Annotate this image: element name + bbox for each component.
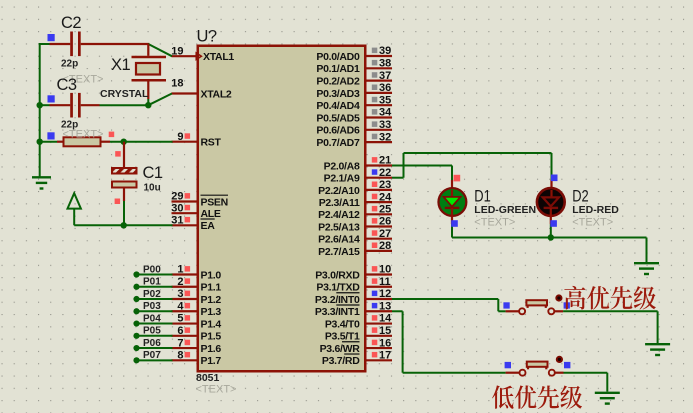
svg-text:2: 2 [177,276,183,288]
svg-text:P2.0/A8: P2.0/A8 [324,160,360,172]
svg-text:3: 3 [177,288,183,300]
svg-text:27: 27 [379,228,391,240]
svg-text:C1: C1 [143,164,163,182]
svg-text:X1: X1 [111,56,131,74]
svg-text:P06: P06 [143,338,161,349]
svg-text:23: 23 [379,179,391,191]
svg-text:11: 11 [379,276,391,288]
svg-text:P3.4/T0: P3.4/T0 [325,318,360,330]
svg-text:P3.5/T1: P3.5/T1 [325,331,360,343]
svg-text:10u: 10u [144,183,161,194]
svg-text:P1.3: P1.3 [201,306,222,318]
svg-text:P0.5/AD5: P0.5/AD5 [316,112,360,124]
svg-text:C3: C3 [57,76,77,94]
svg-text:P0.1/AD1: P0.1/AD1 [316,63,360,75]
svg-text:D2: D2 [572,188,589,206]
svg-text:P0.6/AD6: P0.6/AD6 [316,125,360,137]
svg-text:P3.0/RXD: P3.0/RXD [315,269,360,281]
svg-text:25: 25 [379,204,391,216]
svg-text:P02: P02 [143,289,161,300]
svg-text:P1.6: P1.6 [201,343,222,355]
svg-text:36: 36 [379,82,391,94]
svg-text:P00: P00 [143,264,161,275]
svg-text:LED-RED: LED-RED [572,204,619,216]
svg-text:P3.7/RD: P3.7/RD [322,355,360,367]
svg-text:38: 38 [379,58,391,70]
svg-text:29: 29 [171,191,183,203]
svg-text:P03: P03 [143,301,161,312]
svg-text:P3.1/TXD: P3.1/TXD [316,282,360,294]
svg-text:37: 37 [379,70,391,82]
svg-text:30: 30 [171,202,183,214]
svg-text:XTAL2: XTAL2 [201,88,232,100]
svg-text:P0.3/AD3: P0.3/AD3 [316,88,360,100]
svg-text:CRYSTAL: CRYSTAL [100,88,149,100]
svg-text:PSEN: PSEN [201,196,228,208]
svg-text:P01: P01 [143,277,161,288]
svg-text:39: 39 [379,45,391,57]
svg-text:P2.6/A14: P2.6/A14 [318,234,360,246]
svg-text:P0.7/AD7: P0.7/AD7 [316,137,360,149]
svg-text:P0.0/AD0: P0.0/AD0 [316,51,360,63]
svg-text:P2.7/A15: P2.7/A15 [318,246,360,258]
svg-text:10: 10 [379,264,391,276]
svg-text:14: 14 [379,313,392,325]
svg-text:P1.4: P1.4 [201,318,222,330]
svg-text:P1.2: P1.2 [201,294,222,306]
svg-text:12: 12 [379,288,391,300]
svg-text:P3.6/WR: P3.6/WR [320,343,361,355]
svg-text:ALE: ALE [201,208,221,220]
svg-text:33: 33 [379,119,391,131]
svg-text:17: 17 [379,350,391,362]
svg-text:8: 8 [177,350,183,362]
svg-text:P3.3/INT1: P3.3/INT1 [315,306,360,318]
svg-text:P05: P05 [143,326,161,337]
svg-text:22p: 22p [61,59,78,70]
svg-text:P1.7: P1.7 [201,355,222,367]
svg-text:P1.1: P1.1 [201,282,222,294]
svg-text:13: 13 [379,300,391,312]
svg-text:U?: U? [197,28,217,46]
svg-text:21: 21 [379,155,391,167]
svg-text:8051: 8051 [196,372,220,384]
svg-text:LED-GREEN: LED-GREEN [474,204,536,216]
svg-text:RST: RST [201,137,222,149]
svg-text:7: 7 [177,337,183,349]
svg-text:P2.4/A12: P2.4/A12 [318,209,360,221]
svg-text:P3.2/INT0: P3.2/INT0 [315,294,360,306]
svg-text:31: 31 [171,215,183,227]
svg-text:P2.2/A10: P2.2/A10 [318,185,360,197]
svg-text:9: 9 [177,131,183,143]
svg-text:P1.5: P1.5 [201,331,222,343]
svg-text:P04: P04 [143,313,161,324]
svg-text:5: 5 [177,313,183,325]
svg-text:16: 16 [379,337,391,349]
svg-text:18: 18 [171,78,183,90]
svg-text:P1.0: P1.0 [201,269,222,281]
svg-text:1: 1 [177,264,183,276]
svg-text:19: 19 [171,45,183,57]
svg-text:P2.1/A9: P2.1/A9 [324,173,360,185]
svg-text:22: 22 [379,167,391,179]
svg-text:EA: EA [201,220,216,232]
svg-text:<TEXT>: <TEXT> [572,217,613,229]
svg-text:35: 35 [379,94,391,106]
svg-text:P2.3/A11: P2.3/A11 [319,197,360,209]
svg-text:D1: D1 [474,188,491,206]
svg-text:15: 15 [379,325,391,337]
svg-text:<TEXT>: <TEXT> [196,384,237,396]
svg-text:24: 24 [379,191,392,203]
svg-text:4: 4 [177,300,184,312]
svg-text:<TEXT>: <TEXT> [474,217,515,229]
svg-text:32: 32 [379,131,391,143]
svg-text:<TEXT>: <TEXT> [63,129,104,141]
svg-text:26: 26 [379,216,391,228]
svg-text:6: 6 [177,325,183,337]
svg-text:28: 28 [379,240,391,252]
svg-text:P2.5/A13: P2.5/A13 [318,221,360,233]
svg-text:P07: P07 [143,350,161,361]
svg-text:34: 34 [379,107,392,119]
svg-text:C2: C2 [61,14,81,32]
svg-text:XTAL1: XTAL1 [203,51,234,63]
svg-text:P0.4/AD4: P0.4/AD4 [316,100,360,112]
svg-text:P0.2/AD2: P0.2/AD2 [316,76,360,88]
